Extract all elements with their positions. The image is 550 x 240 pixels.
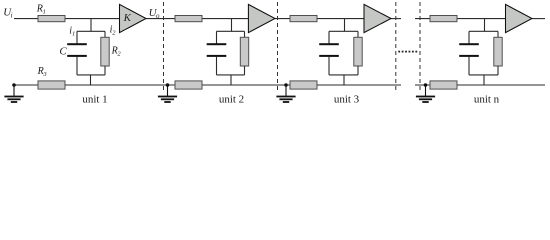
svg-text:1: 1 — [72, 30, 75, 37]
svg-text:unit 3: unit 3 — [334, 93, 360, 105]
svg-text:1: 1 — [43, 8, 46, 15]
svg-text:unit 2: unit 2 — [219, 93, 244, 105]
svg-text:o: o — [156, 12, 160, 20]
svg-text:unit n: unit n — [474, 93, 500, 105]
svg-text:C: C — [59, 45, 67, 57]
svg-text:3: 3 — [42, 71, 47, 78]
svg-text:unit 1: unit 1 — [82, 93, 107, 105]
svg-text:i: i — [11, 12, 13, 20]
svg-text:K: K — [123, 12, 132, 24]
